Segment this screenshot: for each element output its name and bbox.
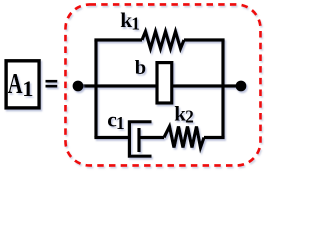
spring k2 xyxy=(164,127,204,148)
wire bottom-left xyxy=(94,136,129,139)
damper c1 piston plate xyxy=(137,128,140,152)
damper c1 cylinder xyxy=(129,122,151,156)
box A1 xyxy=(6,61,39,108)
wire right rail xyxy=(221,40,224,138)
equals sign xyxy=(46,80,58,83)
damper b body xyxy=(157,63,172,103)
wire left rail xyxy=(94,40,97,138)
red dashed boundary xyxy=(66,5,261,166)
svg-text:1: 1 xyxy=(22,76,33,101)
wire bottom-right xyxy=(204,136,225,139)
svg-text:1: 1 xyxy=(116,113,125,133)
node right xyxy=(236,81,247,92)
wire middle branch xyxy=(78,84,241,87)
damper c1 piston rod xyxy=(139,136,164,139)
wire top-right xyxy=(184,38,225,41)
svg-text:A: A xyxy=(8,69,23,100)
node left xyxy=(73,81,84,92)
svg-text:2: 2 xyxy=(185,106,194,126)
wire top-left xyxy=(94,38,142,41)
svg-text:1: 1 xyxy=(131,14,140,34)
svg-text:b: b xyxy=(135,57,146,79)
spring k1 xyxy=(142,32,184,49)
